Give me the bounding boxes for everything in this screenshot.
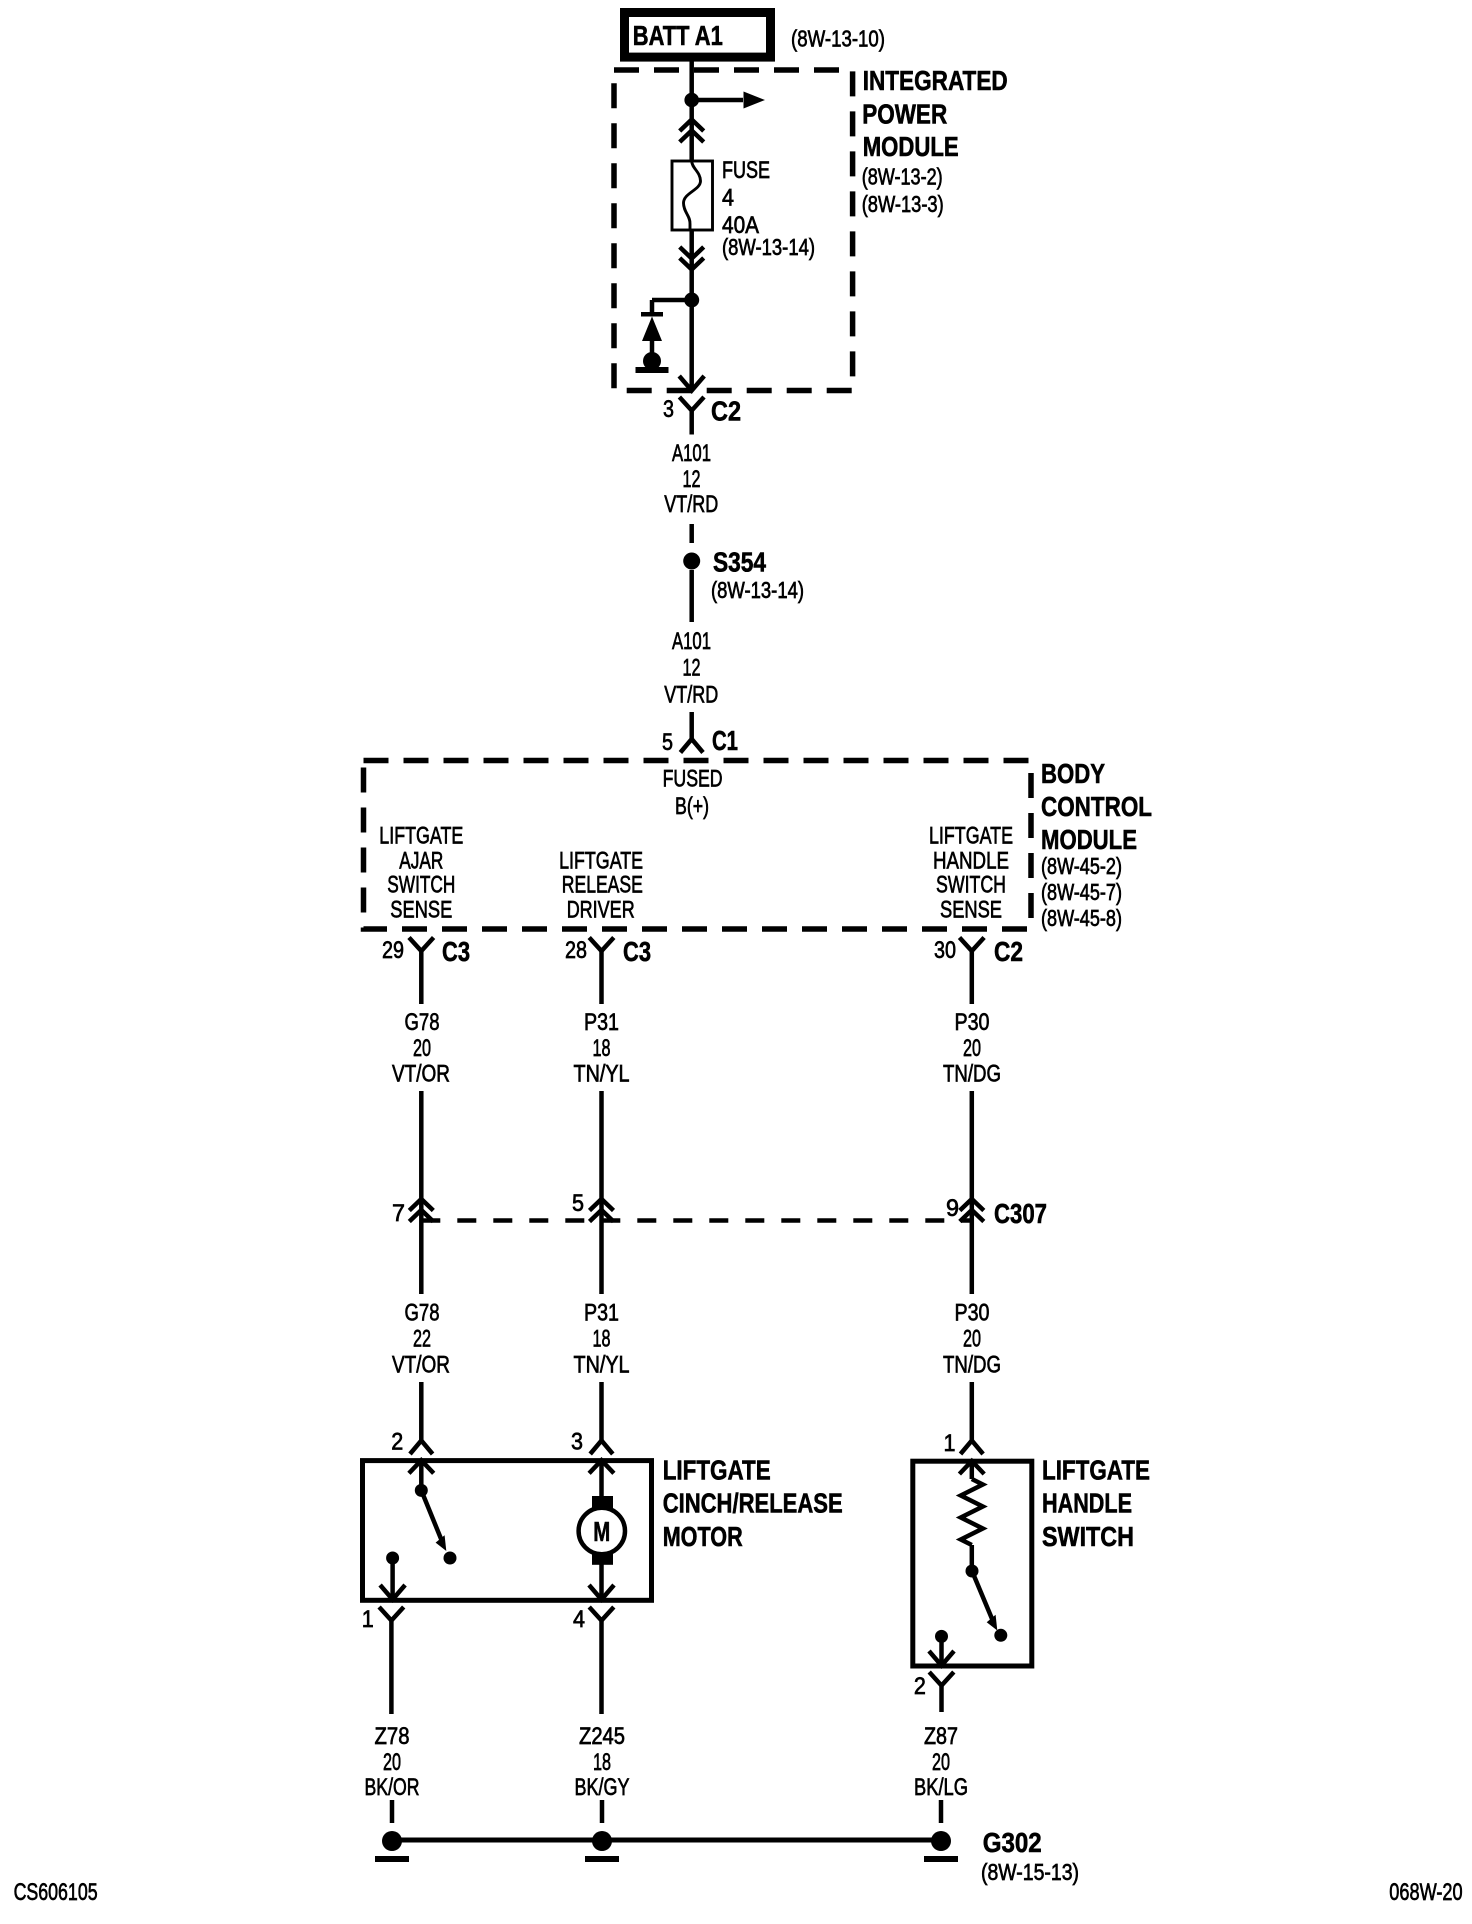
svg-text:(8W-45-8): (8W-45-8)	[1041, 905, 1122, 931]
svg-text:M: M	[593, 1516, 610, 1547]
svg-text:CINCH/RELEASE: CINCH/RELEASE	[663, 1488, 843, 1519]
svg-text:FUSED: FUSED	[663, 766, 723, 793]
svg-text:28: 28	[565, 937, 587, 964]
svg-text:5: 5	[662, 729, 673, 756]
svg-text:20: 20	[963, 1035, 981, 1062]
svg-text:G302: G302	[983, 1827, 1042, 1858]
svg-text:068W-20: 068W-20	[1389, 1879, 1462, 1906]
svg-text:DRIVER: DRIVER	[567, 897, 635, 924]
svg-text:2: 2	[914, 1673, 926, 1700]
svg-text:TN/DG: TN/DG	[943, 1061, 1001, 1088]
svg-text:BK/GY: BK/GY	[575, 1774, 630, 1801]
svg-text:9: 9	[946, 1195, 959, 1222]
svg-text:LIFTGATE: LIFTGATE	[929, 823, 1013, 850]
svg-text:Z87: Z87	[924, 1723, 958, 1750]
svg-text:P31: P31	[584, 1299, 619, 1326]
svg-text:7: 7	[392, 1200, 405, 1227]
svg-text:CS606105: CS606105	[14, 1879, 98, 1906]
svg-text:4: 4	[722, 185, 734, 212]
svg-text:LIFTGATE: LIFTGATE	[1042, 1454, 1150, 1485]
svg-text:FUSE: FUSE	[722, 157, 770, 184]
svg-text:LIFTGATE: LIFTGATE	[663, 1454, 771, 1485]
svg-text:BODY: BODY	[1041, 758, 1105, 789]
svg-text:TN/DG: TN/DG	[943, 1351, 1001, 1378]
svg-text:C2: C2	[994, 936, 1023, 967]
svg-text:C3: C3	[442, 936, 470, 967]
svg-text:POWER: POWER	[862, 98, 947, 129]
svg-text:BATT A1: BATT A1	[633, 20, 723, 51]
svg-text:20: 20	[413, 1035, 431, 1062]
svg-text:A101: A101	[672, 628, 711, 655]
svg-text:(8W-13-3): (8W-13-3)	[862, 191, 944, 217]
svg-text:C307: C307	[994, 1198, 1047, 1229]
svg-text:1: 1	[362, 1606, 374, 1633]
svg-text:(8W-13-10): (8W-13-10)	[791, 26, 885, 52]
svg-text:(8W-15-13): (8W-15-13)	[981, 1859, 1079, 1885]
svg-text:20: 20	[963, 1326, 981, 1353]
svg-text:CONTROL: CONTROL	[1041, 791, 1152, 822]
svg-text:SENSE: SENSE	[940, 897, 1002, 924]
svg-text:(8W-45-2): (8W-45-2)	[1041, 853, 1122, 879]
svg-text:30: 30	[934, 937, 956, 964]
svg-text:(8W-13-14): (8W-13-14)	[722, 234, 815, 260]
svg-text:12: 12	[683, 466, 701, 493]
svg-text:MOTOR: MOTOR	[663, 1521, 743, 1552]
svg-text:20: 20	[932, 1749, 950, 1776]
svg-text:A101: A101	[672, 440, 711, 467]
svg-text:4: 4	[573, 1606, 585, 1633]
svg-text:VT/RD: VT/RD	[664, 682, 718, 709]
svg-text:22: 22	[413, 1326, 431, 1353]
svg-text:SWITCH: SWITCH	[387, 871, 455, 898]
svg-text:P31: P31	[584, 1009, 619, 1036]
svg-text:TN/YL: TN/YL	[574, 1351, 630, 1378]
svg-text:G78: G78	[405, 1009, 440, 1036]
svg-text:(8W-45-7): (8W-45-7)	[1041, 879, 1122, 905]
svg-text:20: 20	[383, 1749, 401, 1776]
svg-text:C1: C1	[712, 725, 738, 756]
svg-text:29: 29	[382, 937, 404, 964]
svg-text:5: 5	[572, 1190, 584, 1217]
svg-text:BK/OR: BK/OR	[365, 1774, 420, 1801]
svg-text:Z245: Z245	[579, 1723, 625, 1750]
svg-text:MODULE: MODULE	[1041, 824, 1137, 855]
svg-text:INTEGRATED: INTEGRATED	[863, 65, 1008, 96]
svg-text:G78: G78	[405, 1299, 440, 1326]
svg-text:MODULE: MODULE	[863, 131, 959, 162]
svg-text:P30: P30	[955, 1009, 990, 1036]
svg-text:TN/YL: TN/YL	[574, 1061, 630, 1088]
svg-text:B(+): B(+)	[675, 793, 709, 820]
svg-text:SWITCH: SWITCH	[936, 871, 1006, 898]
svg-text:(8W-13-14): (8W-13-14)	[711, 577, 804, 603]
svg-text:RELEASE: RELEASE	[562, 871, 643, 898]
svg-text:LIFTGATE: LIFTGATE	[379, 823, 463, 850]
svg-text:18: 18	[593, 1749, 611, 1776]
svg-text:SENSE: SENSE	[390, 897, 452, 924]
svg-text:VT/RD: VT/RD	[664, 491, 718, 518]
svg-text:S354: S354	[713, 547, 766, 578]
svg-text:C2: C2	[711, 396, 741, 427]
svg-text:SWITCH: SWITCH	[1042, 1521, 1134, 1552]
svg-text:Z78: Z78	[375, 1723, 410, 1750]
svg-text:1: 1	[944, 1430, 956, 1457]
svg-text:VT/OR: VT/OR	[392, 1351, 450, 1378]
svg-text:18: 18	[593, 1035, 611, 1062]
svg-text:VT/OR: VT/OR	[392, 1061, 450, 1088]
svg-text:12: 12	[683, 655, 701, 682]
svg-text:3: 3	[663, 396, 674, 423]
svg-text:C3: C3	[623, 936, 651, 967]
svg-text:(8W-13-2): (8W-13-2)	[862, 164, 943, 190]
svg-text:2: 2	[391, 1429, 403, 1456]
svg-text:HANDLE: HANDLE	[1042, 1488, 1132, 1519]
svg-text:18: 18	[593, 1326, 611, 1353]
svg-text:BK/LG: BK/LG	[914, 1774, 968, 1801]
svg-text:3: 3	[571, 1429, 583, 1456]
svg-text:P30: P30	[955, 1299, 990, 1326]
